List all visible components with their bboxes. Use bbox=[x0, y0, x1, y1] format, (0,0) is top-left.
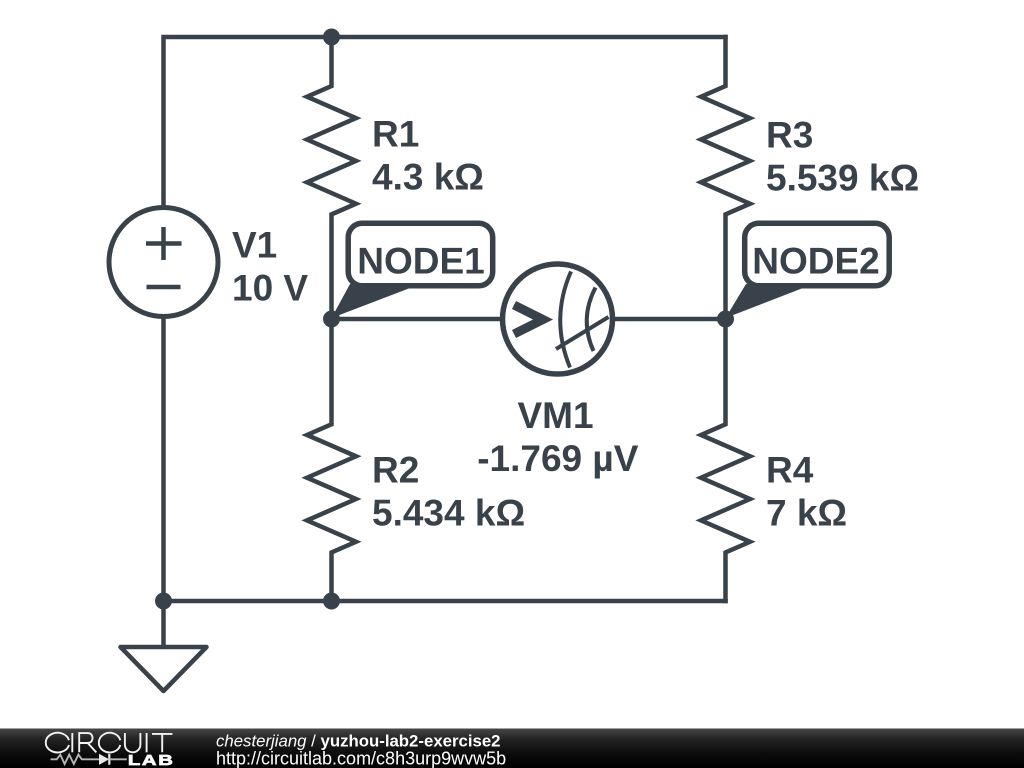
voltmeter VM1 bbox=[503, 264, 613, 374]
label R2 value bbox=[372, 450, 525, 534]
svg-text:4.3 kΩ: 4.3 kΩ bbox=[372, 157, 484, 198]
label R3 value bbox=[766, 115, 919, 199]
label R1 value bbox=[372, 114, 484, 198]
voltage source V1 bbox=[109, 208, 218, 317]
svg-text:R2: R2 bbox=[372, 450, 419, 491]
svg-text:R4: R4 bbox=[766, 450, 814, 491]
logo LAB bbox=[128, 751, 175, 768]
wire bottom rail bbox=[164, 318, 726, 601]
svg-text:http://circuitlab.com/c8h3urp9: http://circuitlab.com/c8h3urp9wvw5b bbox=[216, 748, 506, 768]
wire NODE1 to voltmeter bbox=[332, 317, 501, 322]
junction node bottom mid bbox=[323, 593, 340, 610]
wire voltmeter to NODE2 bbox=[615, 317, 726, 322]
svg-text:LAB: LAB bbox=[128, 751, 175, 768]
node flag NODE2 bbox=[726, 223, 890, 318]
label V1 value bbox=[232, 225, 308, 309]
svg-text:VM1: VM1 bbox=[517, 395, 593, 436]
label VM1 value bbox=[477, 395, 639, 479]
svg-text:V1: V1 bbox=[232, 225, 277, 266]
junction node top bbox=[323, 29, 340, 46]
resistor R3 bbox=[701, 37, 750, 319]
svg-text:NODE2: NODE2 bbox=[752, 241, 879, 282]
svg-text:5.539 kΩ: 5.539 kΩ bbox=[766, 158, 919, 199]
resistor R1 bbox=[307, 37, 356, 319]
resistor R4 bbox=[701, 319, 750, 601]
svg-text:R3: R3 bbox=[766, 115, 813, 156]
logo resistor-diode line bbox=[51, 754, 127, 765]
node flag NODE1 bbox=[332, 223, 493, 318]
svg-text:5.434 kΩ: 5.434 kΩ bbox=[372, 493, 525, 534]
svg-text:R1: R1 bbox=[372, 114, 419, 155]
svg-text:7 kΩ: 7 kΩ bbox=[766, 493, 847, 534]
svg-text:NODE1: NODE1 bbox=[357, 241, 484, 282]
logo CIRCUIT bbox=[46, 733, 173, 753]
wire top rail bbox=[164, 37, 726, 206]
junction node NODE2 bbox=[717, 311, 734, 328]
junction node NODE1 bbox=[323, 311, 340, 328]
resistor R2 bbox=[307, 319, 356, 601]
svg-text:-1.769 µV: -1.769 µV bbox=[477, 438, 639, 479]
label R4 value bbox=[766, 450, 847, 534]
svg-text:10 V: 10 V bbox=[232, 268, 308, 309]
junction node bottom left bbox=[155, 593, 172, 610]
ground bbox=[121, 601, 207, 691]
